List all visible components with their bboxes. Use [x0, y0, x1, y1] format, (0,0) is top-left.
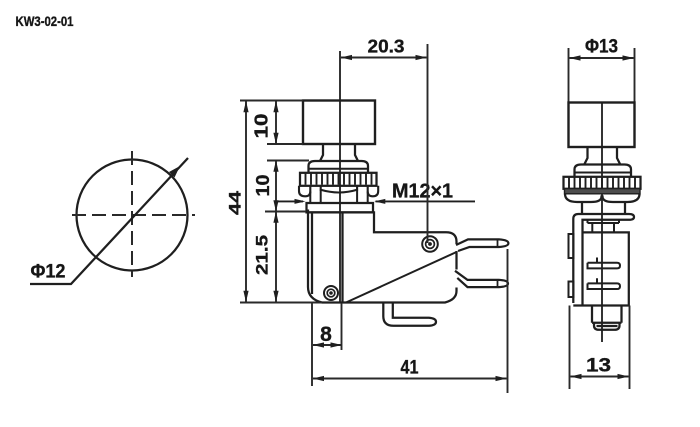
neck side view — [585, 147, 621, 164]
svg-text:M12×1: M12×1 — [392, 181, 453, 203]
vertical centerline front view — [339, 51, 341, 303]
dim phi13 extension lines — [568, 48, 570, 103]
knurled ring side view — [564, 177, 641, 189]
M12x1 leader right arrow — [376, 200, 476, 202]
neck below cap — [320, 144, 358, 161]
left view circle (button front) — [77, 160, 188, 271]
knurl bars — [306, 173, 372, 185]
dim 44 line — [245, 101, 247, 302]
button cap rectangle — [303, 101, 375, 145]
horizontal centerline dashed — [72, 214, 195, 216]
dim 21.5 line — [275, 212, 277, 303]
internal diagonal lever — [346, 252, 457, 303]
dim 41 line — [313, 378, 507, 380]
cap side view — [569, 103, 635, 148]
bracket plate side view — [573, 214, 634, 305]
body side view — [573, 232, 629, 305]
dim 10 upper line — [275, 101, 277, 144]
left extension lines front view — [240, 100, 303, 102]
knurled ring outline — [300, 173, 377, 186]
dim 41 extension lines — [311, 350, 313, 386]
svg-text:20.3: 20.3 — [368, 36, 405, 57]
nut bottom scalloped band — [299, 186, 378, 197]
svg-text:Φ12: Φ12 — [31, 262, 66, 283]
dim 20.3 extension line right (to hole) — [427, 44, 429, 243]
arrowhead on phi12 leader — [169, 166, 180, 178]
terminal 1 (upper right) — [456, 239, 508, 251]
dim 13 extension lines — [569, 306, 571, 390]
terminal 2 crimp line — [497, 280, 499, 287]
nut bottom lobes side view — [565, 194, 640, 202]
upper mounting hole — [422, 236, 438, 252]
collar dome side view — [575, 165, 632, 177]
dim 20.3 line — [341, 57, 427, 59]
svg-text:21.5: 21.5 — [252, 235, 271, 275]
vertical centerline side view — [601, 103, 603, 342]
bottom terminal L-shaped — [383, 303, 436, 326]
plunger side view — [592, 305, 622, 323]
dim 8 line — [313, 344, 342, 346]
lower mounting hole — [324, 286, 338, 300]
terminal 2 (lower right) — [455, 271, 508, 287]
svg-text:10: 10 — [253, 175, 273, 197]
left tab upper — [569, 234, 574, 258]
bushing flange — [307, 203, 374, 212]
microswitch body outline — [308, 210, 457, 303]
collar inner line — [309, 168, 369, 170]
dim 8 extension lines — [311, 303, 313, 350]
stem below nut side view — [582, 202, 625, 214]
svg-text:KW3-02-01: KW3-02-01 — [16, 14, 74, 29]
terminal bar 2 side view — [588, 278, 621, 289]
M12x1 leader left arrow — [277, 200, 303, 202]
vertical centerline dashed — [131, 151, 133, 277]
svg-text:41: 41 — [401, 358, 419, 379]
stub posts — [592, 223, 614, 232]
collar dome — [309, 161, 369, 173]
svg-text:10: 10 — [250, 114, 271, 139]
dim 10 lower line — [275, 161, 277, 212]
thin rib below plate — [588, 220, 620, 223]
left tab lower — [569, 282, 574, 298]
dim phi13 line — [570, 57, 634, 59]
terminal 1 crimp line — [497, 239, 499, 247]
terminal bar 1 side view — [588, 258, 621, 269]
svg-text:44: 44 — [225, 190, 244, 215]
svg-text:8: 8 — [320, 323, 332, 346]
svg-text:13: 13 — [586, 356, 611, 377]
leader line for phi12 — [30, 158, 188, 284]
plunger stem lines inside body — [312, 212, 343, 302]
svg-text:Φ13: Φ13 — [585, 37, 618, 58]
dim 13 line — [571, 376, 629, 378]
threaded band side view — [565, 189, 641, 194]
thread stubs — [310, 190, 367, 203]
